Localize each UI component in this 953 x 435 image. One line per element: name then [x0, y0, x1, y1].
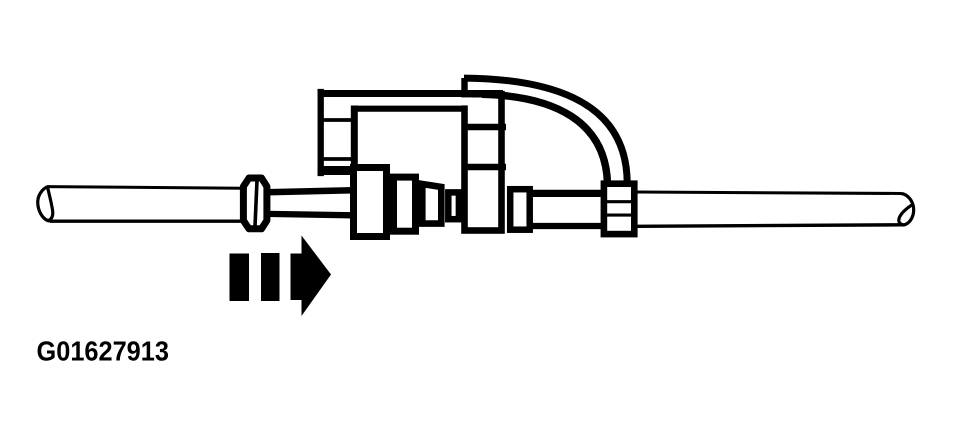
- bracket outer top edge: [318, 90, 503, 97]
- neck bottom line: [267, 214, 353, 215]
- bracket outer bottom edge: [318, 166, 371, 175]
- flange inner line: [255, 181, 257, 227]
- left tube top line: [48, 187, 243, 189]
- motion dash bar 2: [261, 253, 280, 301]
- direction arrow: [291, 236, 332, 317]
- bracket inner rect left edge: [351, 109, 358, 163]
- right pipe end cap outer curve: [900, 194, 913, 225]
- hose fitting: [604, 184, 634, 234]
- connector block 4: [448, 192, 459, 219]
- connector block 1: [354, 168, 387, 237]
- connector block 3: [422, 184, 441, 224]
- connector block 2: [394, 177, 416, 231]
- svg-text:G01627913: G01627913: [37, 335, 169, 366]
- bracket left column divider upper: [322, 118, 355, 122]
- white patch over column left edge (bracket top band): [459, 97, 472, 105]
- right pipe top line: [637, 192, 901, 194]
- left tube end cap outer curve: [38, 186, 52, 221]
- fitting divider upper: [601, 200, 637, 203]
- left tube bottom line: [50, 220, 243, 223]
- fitting divider lower: [601, 214, 637, 217]
- lower pipe top line (collar to fitting): [528, 190, 608, 197]
- hose outer arc: [464, 78, 627, 184]
- right pipe bottom line: [637, 225, 901, 227]
- hose inner arc: [482, 94, 608, 184]
- hose start left edge: [461, 78, 467, 95]
- bracket inner rect top edge: [351, 106, 464, 112]
- quick-connect flange octagon: [243, 178, 267, 229]
- bracket outer left edge: [318, 92, 324, 173]
- neck top line: [267, 190, 353, 192]
- column divider lower: [462, 164, 507, 171]
- valve body column: [465, 94, 502, 230]
- collar: [510, 189, 530, 230]
- lower pipe bottom line: [528, 223, 608, 229]
- motion dash bar 1: [230, 254, 250, 302]
- bracket left column divider lower: [322, 157, 355, 161]
- column divider upper: [462, 124, 507, 131]
- right pipe end cap inner leaf edge: [899, 205, 912, 225]
- left tube end cap inner leaf edge: [48, 188, 53, 221]
